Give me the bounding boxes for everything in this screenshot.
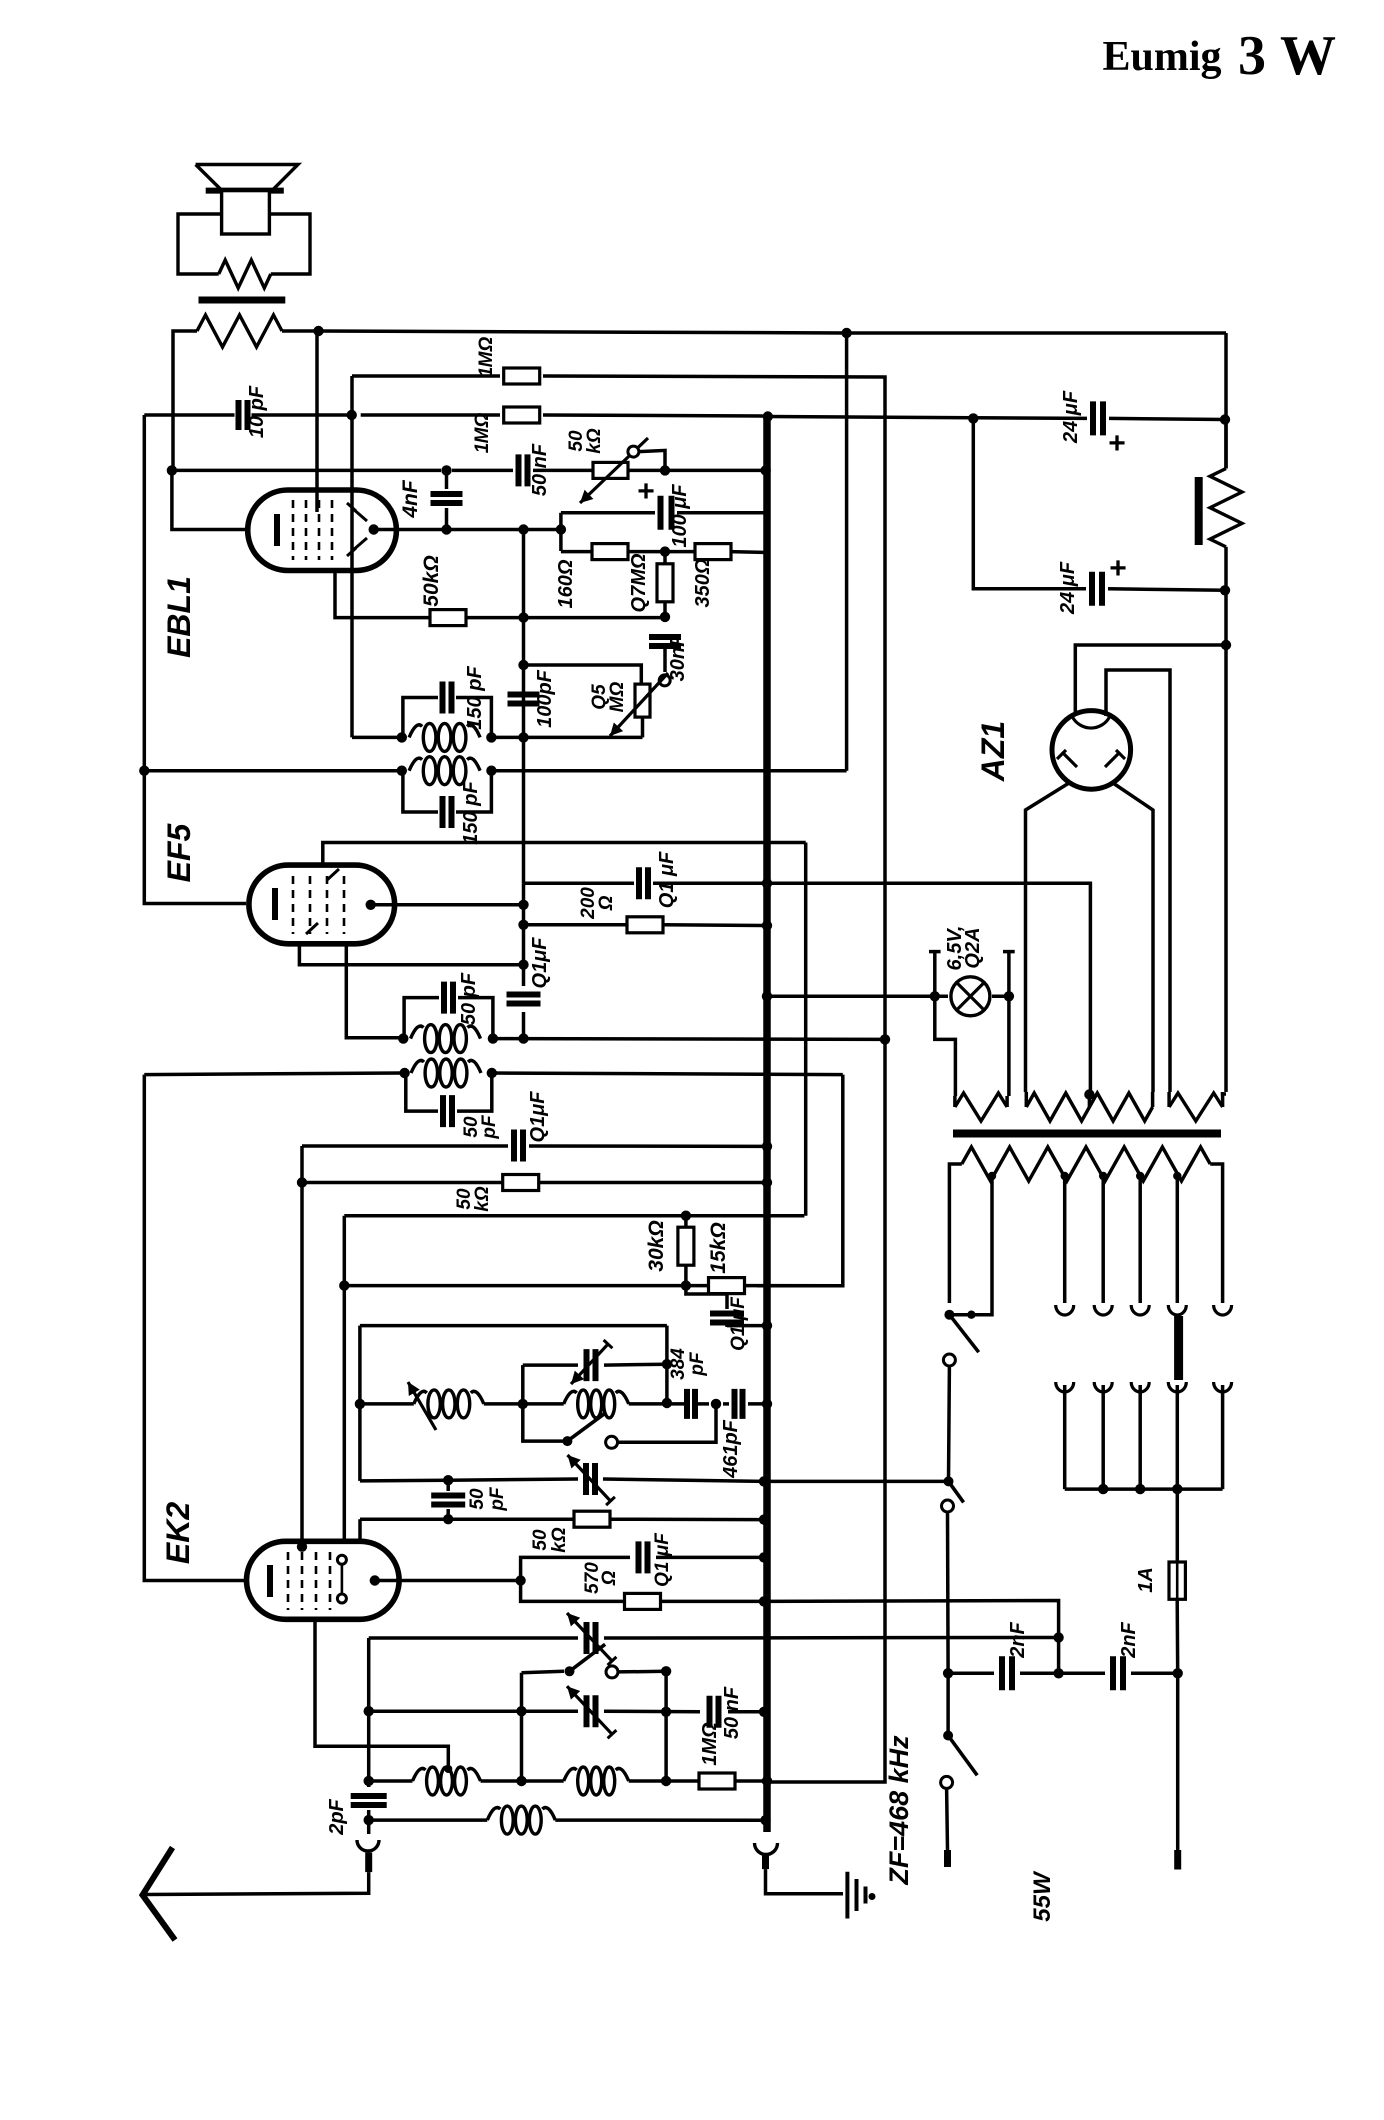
xfmr secondary 1 (4V rect fil) xyxy=(955,1093,1007,1121)
tube EF5 top tick xyxy=(327,869,339,880)
node: mains tap junction xyxy=(967,1311,975,1319)
svg-text:Q2A: Q2A xyxy=(962,927,984,968)
resistor 350 xyxy=(695,544,731,560)
svg-text:kΩ: kΩ xyxy=(549,1527,570,1553)
wire: x1226 column xyxy=(1224,420,1228,469)
node: row1711 at x521 xyxy=(516,1706,526,1716)
pot 0.5M wiper contact xyxy=(659,675,670,686)
wire: tap3 xyxy=(1101,1176,1105,1303)
osc coil A arrow xyxy=(408,1382,436,1430)
node: tank right xyxy=(486,732,496,742)
bus stub xyxy=(762,1855,769,1869)
wire: AZ1 anode lead right xyxy=(1113,783,1153,1092)
wire: x368 below 2pF xyxy=(367,1810,371,1834)
wire: AZ1 anode lead left xyxy=(1026,783,1070,1092)
wire: tap4 xyxy=(1138,1176,1142,1303)
wire: antenna drop xyxy=(145,1872,369,1894)
wire: EF5 g3 lead xyxy=(299,944,523,965)
trimmer osc 2 xyxy=(586,1463,595,1495)
antenna coil xyxy=(487,1808,500,1821)
wire: EF5 top cap lead xyxy=(323,843,806,866)
node: row 1039 at x885 xyxy=(880,1034,890,1044)
svg-text:+: + xyxy=(1109,552,1127,585)
node: fil wire at x1226 xyxy=(1221,640,1231,650)
node: EK2 anode junction xyxy=(515,1575,525,1585)
capacitor 50nF (AF coupling) xyxy=(519,454,528,486)
mains switch c (ZF) xyxy=(943,1731,953,1741)
capacitor 0.1uF (AVC filter) xyxy=(710,1314,744,1323)
node: 24uF1 right xyxy=(1220,414,1230,424)
wire: primary right to B+ row xyxy=(282,329,319,333)
potentiometer 0.5M xyxy=(635,684,650,717)
node: row 1039 at x523 xyxy=(518,1033,528,1043)
capacitor 2pF xyxy=(351,1796,387,1805)
node: 2nF mid xyxy=(1053,1668,1063,1678)
tube EF5 envelope xyxy=(249,865,395,944)
wire: right edge drop x1226 xyxy=(1224,333,1228,469)
wire: row 1519 xyxy=(360,1517,574,1521)
selector cup bottom 5 xyxy=(1214,1382,1232,1392)
node: 2nF right xyxy=(1173,1668,1183,1678)
capacitor 2nF #2 xyxy=(1113,1656,1123,1690)
node: x561 tee xyxy=(556,524,566,534)
svg-text:Q7MΩ: Q7MΩ xyxy=(628,553,650,612)
wire: g1 row right part xyxy=(465,616,665,620)
node: 50pF col bottom xyxy=(443,1514,453,1524)
field coil core bar xyxy=(1195,477,1203,545)
wire: row 1039 right xyxy=(493,1037,885,1041)
selector cup bottom 4 xyxy=(1168,1382,1186,1392)
wire: mains col c xyxy=(946,1673,950,1735)
resistor 50k (AVC) xyxy=(503,1175,539,1191)
node: det row at x523 xyxy=(518,732,528,742)
node: row1403 at bus xyxy=(762,1399,772,1409)
node: IF coil right xyxy=(486,766,496,776)
lamp stubs up xyxy=(933,952,937,997)
tube EK2 envelope xyxy=(247,1541,400,1619)
resistor 1M#2 xyxy=(504,407,540,423)
svg-text:1A: 1A xyxy=(1135,1567,1157,1593)
wire: pot wiper to row xyxy=(639,450,665,470)
tube AZ1 envelope xyxy=(1052,711,1131,790)
node: tap1 xyxy=(988,1172,996,1180)
capacitor 461pF xyxy=(735,1389,743,1419)
wire: 4nF column xyxy=(445,470,449,489)
svg-text:Q1μF: Q1μF xyxy=(527,1091,549,1143)
wire: x561 riser xyxy=(559,513,563,551)
svg-text:50: 50 xyxy=(530,1529,551,1551)
svg-text:50 nF: 50 nF xyxy=(721,1686,743,1739)
svg-text:50 pF: 50 pF xyxy=(458,972,480,1025)
node: lamp right xyxy=(1004,991,1014,1001)
xfmr secondary 2 (HV) xyxy=(1026,1093,1152,1121)
capacitor 4nF xyxy=(431,494,463,503)
svg-text:2nF: 2nF xyxy=(1007,1621,1029,1658)
antenna symbol xyxy=(143,1848,176,1941)
svg-text:2nF: 2nF xyxy=(1118,1621,1140,1658)
wire: 0.5M bottom xyxy=(641,717,645,737)
wire: IF row y770 xyxy=(144,769,402,773)
node: 24uF2 right j xyxy=(1220,585,1230,595)
wire: selector collector bar xyxy=(1065,1487,1223,1491)
wire: B+ row y333 xyxy=(319,331,1227,333)
wire: row 1073 right xyxy=(492,1073,843,1075)
wire: x360 column xyxy=(358,1326,362,1481)
pilot lamp 6.5V 0.2A xyxy=(951,977,990,1016)
IFT1 box sides xyxy=(406,1073,438,1111)
node: tap4 xyxy=(1136,1172,1144,1180)
capacitor 150pF (IF) xyxy=(443,796,452,828)
svg-text:MΩ: MΩ xyxy=(476,337,497,368)
osc coil B xyxy=(564,1391,577,1404)
wire: 30k leads xyxy=(684,1216,688,1227)
wire: 0.1uF avc leads xyxy=(686,1286,727,1309)
wire: tank to x523 xyxy=(491,736,642,740)
tube EBL1 cathode bar xyxy=(274,514,280,546)
node: row1403 at x667 xyxy=(662,1398,672,1408)
wire: left column x144 upper xyxy=(144,415,246,904)
node: 50pF col top xyxy=(443,1475,453,1485)
svg-text:160Ω: 160Ω xyxy=(555,559,577,608)
resistor 0.7M (vertical) xyxy=(657,564,673,602)
node: row1711 at bus xyxy=(759,1707,769,1717)
resistor 30k (vertical) xyxy=(678,1227,694,1265)
svg-text:EK2: EK2 xyxy=(160,1502,196,1564)
tube EF5 cathode bar xyxy=(272,888,278,920)
wire: row 1146 xyxy=(300,1146,304,1541)
speaker cone base bar xyxy=(206,188,284,194)
node: tap5 xyxy=(1173,1172,1181,1180)
node: HV center tap xyxy=(1084,1089,1094,1099)
node: g3 row at x523 xyxy=(518,960,528,970)
node: row1519 at bus xyxy=(759,1514,769,1524)
node: 2nF1 left xyxy=(943,1668,953,1678)
svg-text:EBL1: EBL1 xyxy=(161,576,197,658)
svg-text:Q1 μF: Q1 μF xyxy=(728,1296,749,1351)
svg-text:4nF: 4nF xyxy=(399,479,422,519)
output transformer primary (zigzag) xyxy=(197,315,282,347)
tube EBL1 grid dashes xyxy=(292,500,295,560)
svg-text:350Ω: 350Ω xyxy=(692,558,714,607)
tube EBL1 anode junction dot xyxy=(369,524,379,534)
potentiometer 50k (volume) xyxy=(593,462,628,478)
node: 4nF column top xyxy=(441,465,451,475)
wire: tap1 xyxy=(949,1176,992,1315)
node: row1781 at x521 xyxy=(516,1776,526,1786)
wire: sec3 right to x1226 xyxy=(1223,1092,1226,1094)
svg-text:461pF: 461pF xyxy=(720,1419,742,1479)
wire: x523 col pieces xyxy=(522,883,526,986)
node: row1365 at x667 xyxy=(662,1359,672,1369)
wire: x172 down to EBL1 cathode xyxy=(172,470,246,529)
wire: 570 row continues to 2nF drop xyxy=(764,1601,1059,1674)
selector cup bottom 1 xyxy=(1056,1382,1074,1392)
node: pot right junction xyxy=(660,465,670,475)
xfmr core xyxy=(953,1130,1221,1138)
svg-text:Q1μF: Q1μF xyxy=(529,937,551,989)
det tank coil xyxy=(409,725,422,738)
svg-text:Eumig: Eumig xyxy=(1102,34,1221,80)
wire: 0.7M leads xyxy=(663,552,667,564)
wire: row1820 to bus xyxy=(555,1818,765,1822)
wire: 1M to bus xyxy=(735,1779,768,1783)
node: row1781 at x666 xyxy=(661,1776,671,1786)
wire: row 415 right xyxy=(768,417,1087,419)
node: EF5 anode junction xyxy=(518,900,528,910)
resistor 200 xyxy=(627,917,663,933)
wire: x521 column low xyxy=(520,1673,524,1781)
capacitor 24uF #2 xyxy=(1092,572,1102,606)
svg-text:pF: pF xyxy=(479,1114,500,1140)
wire: row 1711 xyxy=(369,1709,578,1713)
switch wave-change 1 xyxy=(562,1436,572,1446)
wire: AVC row y415 xyxy=(144,413,234,417)
resistor 50k (EBL1 grid) xyxy=(430,610,466,626)
selector cup top 3 xyxy=(1131,1305,1149,1315)
node: anode/primary junction xyxy=(313,326,323,336)
node: row1403 at x523 xyxy=(518,1399,528,1409)
capacitor 0.1uF (EK2 anode) xyxy=(639,1541,648,1573)
node: between padders xyxy=(711,1399,721,1409)
wire: mains col a xyxy=(947,1366,951,1481)
speaker frame box xyxy=(178,214,222,274)
tube EK2 g-pin circles xyxy=(337,1555,346,1564)
capacitor 10pF xyxy=(239,400,248,430)
svg-text:150 pF: 150 pF xyxy=(460,781,482,845)
node: y883 at bus xyxy=(762,878,772,888)
svg-text:+: + xyxy=(1108,427,1126,460)
node: row1481 at bus xyxy=(759,1476,769,1486)
node: antenna row xyxy=(364,1815,374,1825)
IFT2 coil xyxy=(411,1026,424,1039)
wire: vertical x846 (B+ to IF row) xyxy=(845,333,849,771)
svg-text:Q1 μF: Q1 μF xyxy=(652,1532,673,1587)
wire: grid row y470 xyxy=(172,469,441,473)
wire: x973 drop xyxy=(973,418,1086,588)
wire: x885 column lower xyxy=(767,1039,885,1782)
resistor 160 xyxy=(592,544,628,560)
tube EBL1 diode plates xyxy=(352,508,367,521)
wire: bus to ground xyxy=(766,1869,844,1894)
capacitor 50pF (EK2) xyxy=(431,1496,465,1505)
tube AZ1 anode ticks xyxy=(1062,752,1077,767)
tube EF5 grid dashes xyxy=(292,876,295,934)
node: row1711 at x666 xyxy=(661,1707,671,1717)
wire: row 1182 xyxy=(302,1181,503,1185)
switch wave-change 2 xyxy=(565,1666,575,1676)
osc coil A xyxy=(414,1391,427,1404)
svg-text:100pF: 100pF xyxy=(534,669,556,728)
wire: row1781 m1 xyxy=(481,1779,564,1783)
ground symbol xyxy=(845,1872,849,1919)
svg-text:3 W: 3 W xyxy=(1238,25,1336,87)
IF coil (to EF5) xyxy=(409,758,422,771)
node: row1182 at bus xyxy=(762,1177,772,1187)
node: screen row left xyxy=(518,920,528,930)
node: 0.1uF EK2 at bus xyxy=(759,1552,769,1562)
voice coil resistor (zigzag in speaker box) xyxy=(219,260,271,288)
node: IFT1 left xyxy=(399,1068,409,1078)
antenna lead stub xyxy=(365,1853,372,1873)
wire: row 1365 xyxy=(523,1363,578,1367)
bus break arc xyxy=(755,1843,778,1855)
wire: primary right end xyxy=(1210,1164,1222,1303)
node: collector at fuse col xyxy=(1172,1484,1182,1494)
node: tank left xyxy=(397,732,407,742)
wire: row 1638 xyxy=(369,1636,578,1640)
svg-text:Q1 μF: Q1 μF xyxy=(656,851,678,908)
wire: mains col b xyxy=(946,1512,950,1673)
wire: x523 osc riser xyxy=(521,1365,525,1404)
node: IF coil left xyxy=(397,766,407,776)
svg-text:Ω: Ω xyxy=(596,895,617,911)
capacitor 0.1uF (x523 column) xyxy=(507,995,541,1004)
svg-text:pF: pF xyxy=(687,1351,708,1377)
wire: lamp left to winding xyxy=(935,996,956,1096)
node: collector at tap3 xyxy=(1098,1484,1108,1494)
wire: lamp row xyxy=(767,995,948,999)
selector cup bottom 2 xyxy=(1094,1382,1112,1392)
node: row1146 at bus xyxy=(762,1141,772,1151)
selector cup top 5 xyxy=(1214,1305,1232,1315)
wire: EK2 bottom lead xyxy=(315,1619,448,1769)
selector cup top 2 xyxy=(1094,1305,1112,1315)
wire: x806 column xyxy=(804,843,808,1216)
speaker field coil (zigzag) xyxy=(1210,469,1242,547)
wire: row1403 caps xyxy=(629,1402,684,1406)
node: tap2 xyxy=(1061,1172,1069,1180)
svg-text:50: 50 xyxy=(467,1488,488,1510)
svg-text:50kΩ: 50kΩ xyxy=(420,555,443,606)
node: bus top xyxy=(763,411,773,421)
capacitor 30nF xyxy=(649,637,681,646)
node: IFT1 right xyxy=(487,1068,497,1078)
speaker cone xyxy=(196,165,298,191)
svg-text:MΩ: MΩ xyxy=(472,413,493,444)
wire: lamp right to winding xyxy=(1007,996,1011,1096)
wire: row 1403 xyxy=(360,1402,414,1406)
svg-text:+: + xyxy=(637,475,655,508)
wire: x523 long column xyxy=(522,530,526,884)
svg-text:ZF=468 kHz: ZF=468 kHz xyxy=(884,1735,914,1886)
tube EK2 grid dashes xyxy=(287,1552,290,1610)
wire: fuse to 2nF row xyxy=(1175,1599,1179,1673)
capacitor 50nF (EK2) xyxy=(710,1696,719,1728)
wire: row y665 xyxy=(524,665,642,684)
fuse 1A xyxy=(1169,1562,1185,1599)
node: g1 row at x665 xyxy=(660,612,670,622)
wire: x666 column low xyxy=(664,1671,668,1781)
bus: main ground bus xyxy=(763,416,771,1832)
node: lamp left xyxy=(930,991,940,1001)
wire: AZ1 fil lead 2 xyxy=(1106,670,1170,1092)
wire: row 1481 xyxy=(360,1478,448,1482)
selector cup bottom 3 xyxy=(1131,1382,1149,1392)
svg-text:30nF: 30nF xyxy=(667,634,689,681)
node: row1781 at bus xyxy=(762,1776,772,1786)
wire: 30nF to pot wiper xyxy=(663,646,667,672)
wire: EF5 grid lead to IFT2 xyxy=(346,944,403,1038)
wire: row 1215 xyxy=(343,1216,347,1542)
wire: EBL1 output row y529 xyxy=(374,528,561,532)
capacitor 0.1uF (row1146) xyxy=(514,1130,523,1162)
node: x846 tap on B+ row xyxy=(841,328,851,338)
node: EBL1 out at x523 xyxy=(518,524,528,534)
node: tap3 xyxy=(1099,1172,1107,1180)
capacitor padder a xyxy=(687,1389,695,1419)
selector cup top 1 xyxy=(1056,1305,1074,1315)
svg-text:15kΩ: 15kΩ xyxy=(707,1222,730,1273)
capacitor 24uF #1 xyxy=(1093,401,1103,435)
mains switch a xyxy=(944,1310,954,1320)
tube AZ1 filament arc xyxy=(1072,716,1110,728)
wire: row1781 m2 xyxy=(629,1779,700,1783)
wire: row 1073 left xyxy=(144,1073,404,1075)
wire: row 1781 left xyxy=(369,1779,413,1783)
node: grid row at bus xyxy=(760,465,770,475)
wire: primary left end down xyxy=(173,331,197,470)
node: row1820 at bus xyxy=(760,1815,770,1825)
wire: anode jog down 570 row xyxy=(521,1581,624,1602)
capacitor 2nF #1 xyxy=(1002,1656,1012,1690)
wire: mains stub right xyxy=(1176,1673,1180,1850)
svg-text:30kΩ: 30kΩ xyxy=(645,1220,668,1271)
wire: tap5 drop xyxy=(1176,1176,1180,1303)
node: x352 on AVC row xyxy=(347,410,357,420)
svg-text:50 nF: 50 nF xyxy=(529,443,551,496)
trimmer osc 4 xyxy=(587,1695,596,1727)
osc coil B2 xyxy=(564,1768,577,1781)
selector plug bar xyxy=(1174,1316,1183,1380)
wire: EBL1 g1 lead xyxy=(335,571,431,618)
wire: x352 column through EBL1 xyxy=(350,376,354,415)
svg-text:Ω: Ω xyxy=(599,1570,620,1586)
resistor 1M (osc) xyxy=(699,1773,735,1789)
resistor 1M#1 xyxy=(504,368,540,384)
node: EBL1 out at 4nF xyxy=(441,524,451,534)
capacitor 150pF (det) xyxy=(443,682,452,714)
svg-text:100 μF: 100 μF xyxy=(669,484,691,548)
tube EBL1 envelope xyxy=(248,490,397,571)
node: 570 at bus xyxy=(759,1596,769,1606)
resistor 50k (mixer grid) xyxy=(574,1511,610,1527)
wire: 100uF row xyxy=(561,511,655,515)
node: row y665 at x523 xyxy=(518,660,528,670)
wire: EF5 anode row xyxy=(371,903,524,907)
wire: screen row y924 xyxy=(524,923,629,927)
wire: switch2 right xyxy=(618,1670,666,1674)
resistor 570 xyxy=(625,1593,661,1609)
wire: switch2 left xyxy=(522,1671,565,1673)
wire: anode jog up + 0.1uF row y883 xyxy=(524,882,635,886)
IFT2 box sides xyxy=(404,998,439,1039)
xfmr primary winding xyxy=(962,1147,1210,1181)
capacitor 50pF (IFT1) xyxy=(443,1095,452,1127)
svg-text:MΩ: MΩ xyxy=(607,682,628,713)
svg-text:kΩ: kΩ xyxy=(472,1186,493,1212)
node: row415 at x973 xyxy=(968,413,978,423)
wire: primary left end xyxy=(949,1164,961,1303)
wire: collector to fuse xyxy=(1176,1489,1180,1562)
output transformer core xyxy=(199,297,286,304)
tube EF5 bottom tick xyxy=(306,923,318,934)
tube EK2 cathode bar xyxy=(267,1565,273,1597)
svg-text:10 pF: 10 pF xyxy=(246,385,268,438)
node: 160/350 junction xyxy=(660,546,670,556)
wire: tap2 xyxy=(1063,1176,1067,1303)
wire: det tank row xyxy=(352,736,402,740)
svg-text:55W: 55W xyxy=(1029,1870,1056,1922)
